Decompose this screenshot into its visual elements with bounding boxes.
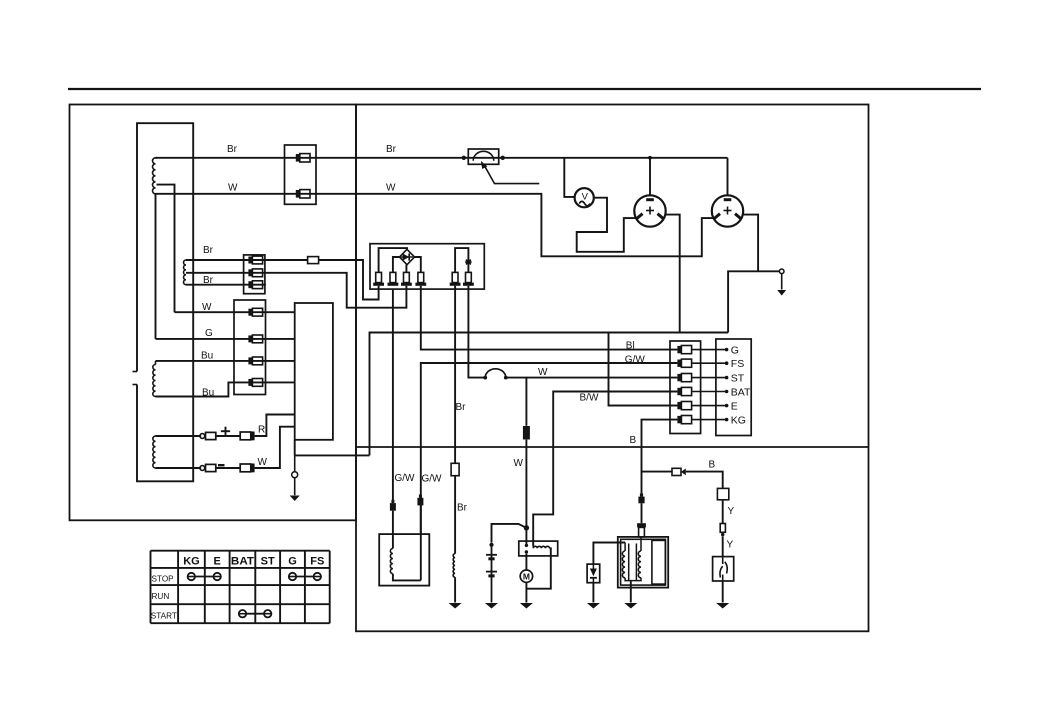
wire relay coil to ground side: [526, 548, 550, 588]
wire Bu2 to regulator: [156, 382, 295, 396]
AC receptacle 1 circle: [634, 195, 665, 226]
connector on Y wire: [720, 524, 725, 533]
wire to G label: [692, 349, 725, 351]
ground arrow: [624, 603, 637, 609]
wire earth link to E line: [295, 454, 370, 456]
minus mark: [218, 464, 225, 466]
wire to ST label: [692, 377, 725, 379]
wire voltmeter to receptacle 1: [577, 198, 636, 252]
svg-text:Br: Br: [457, 503, 468, 514]
AC receptacle 2 plus mark: [724, 210, 732, 212]
fuse box on Y circuit: [717, 488, 728, 499]
gauge plug: [637, 523, 646, 527]
connector J2 (3-pin) housing: [244, 255, 265, 294]
wire to FS label: [692, 362, 725, 364]
svg-text:BAT: BAT: [231, 555, 254, 567]
starter motor circle: [520, 570, 532, 582]
terminal dot G: [725, 348, 729, 352]
rectifier terminal 5 socket: [452, 272, 458, 282]
gauge left winding: [622, 551, 625, 578]
wire W to starter relay: [525, 440, 527, 544]
connector J3 pin W: [248, 309, 252, 316]
svg-text:Y: Y: [728, 506, 735, 517]
hop dot: [504, 376, 508, 380]
ground stem: [781, 274, 783, 290]
diode symbol in diamond: [403, 253, 410, 260]
rectifier terminal 3 foot: [401, 283, 412, 286]
main switch table grid: [150, 551, 152, 624]
wire receptacle 2 right pin to ground node: [743, 215, 758, 272]
diode symbol: [590, 569, 597, 577]
inline connector (black): [523, 426, 530, 440]
wire terminal 5 over to terminal 6: [455, 248, 468, 272]
battery plate long: [486, 571, 497, 573]
battery plate long: [486, 554, 497, 556]
connector on W row: [240, 464, 251, 472]
generator compartment box (left): [70, 105, 357, 521]
wire ground link: [728, 271, 779, 332]
rectifier terminal 1 socket: [376, 272, 382, 282]
AC receptacle 2 top slot: [724, 198, 732, 201]
svg-text:Br: Br: [227, 144, 238, 155]
starter relay box: [519, 541, 558, 556]
gauge core line: [628, 544, 630, 581]
wire G/W (ignition to FS terminal): [421, 363, 678, 534]
battery stem: [491, 547, 493, 603]
wire B to gauge plug: [641, 503, 643, 523]
rectifier terminal 4 socket: [418, 272, 424, 282]
wire W to regulator: [175, 311, 295, 313]
wire R row: [216, 435, 240, 437]
AC receptacle 1 lower-left slot: [637, 214, 643, 219]
wire W down from ST line: [525, 378, 527, 426]
svg-text:BAT: BAT: [731, 386, 751, 398]
svg-text:Br: Br: [203, 275, 214, 286]
connector J3 pin Bu1: [248, 357, 252, 364]
connector J4 (6-pin) housing: [670, 341, 701, 434]
diode unit box: [587, 564, 600, 583]
svg-text:E: E: [214, 555, 221, 567]
rectifier terminal 5 foot: [450, 283, 461, 286]
relay coil: [533, 546, 549, 548]
wire battery positive: [492, 524, 526, 543]
stator coil W1 (main: Br/W): [153, 158, 156, 194]
wire Br2 coil tap to rectifier T3: [186, 273, 406, 308]
svg-text:Bu: Bu: [202, 387, 214, 398]
battery plate short: [488, 574, 494, 577]
wire to KG label: [692, 419, 725, 421]
voltmeter ac tilde: [579, 201, 590, 205]
wire E (earth) run: [370, 333, 729, 456]
svg-text:FS: FS: [310, 555, 324, 567]
wire terminal 1 to diamond top: [379, 248, 407, 272]
svg-text:Bl: Bl: [626, 341, 635, 352]
bullet connector on G/W1: [391, 500, 394, 503]
wire Br (main output): [156, 157, 728, 159]
svg-text:Br: Br: [203, 245, 214, 256]
connector J1 (2-pin) housing: [285, 145, 317, 204]
svg-text:G: G: [205, 328, 213, 339]
svg-text:G: G: [731, 344, 739, 356]
wire Y: [722, 500, 724, 524]
connector J3 pin Bu2: [248, 379, 252, 386]
wire Br3 stub: [186, 284, 266, 286]
wire Br1 coil to rectifier T1: [186, 259, 308, 261]
wire terminal 4 to diamond right: [415, 257, 421, 272]
ignition coil primary winding: [390, 549, 393, 574]
rectifier terminal 3 socket: [404, 272, 410, 282]
wire gauge left exit: [593, 543, 625, 565]
wire E drop to connector: [609, 333, 678, 406]
bullet terminal on W row: [200, 466, 205, 471]
wire G/W 1 (T2 down): [392, 289, 394, 502]
svg-text:W: W: [514, 458, 524, 469]
wire G/W2 into coil: [420, 505, 422, 580]
connector J4 pin FS: [677, 360, 681, 367]
connector J1 pin W: [296, 190, 300, 198]
stator coil W4 (charging: R/W): [153, 436, 156, 468]
wire W row: [216, 467, 240, 469]
voltmeter circle: [575, 188, 594, 207]
wire W to ST terminal: [506, 377, 678, 379]
wire terminal 3 to diamond bottom: [405, 265, 407, 273]
connector J2 pin Br1: [248, 257, 252, 264]
connector J2 pin Br2: [248, 269, 252, 276]
ground terminal circle: [779, 269, 784, 274]
AC receptacle 2 circle: [712, 195, 743, 226]
ground arrow: [716, 603, 729, 609]
ground terminal stem: [294, 455, 296, 471]
svg-text:RUN: RUN: [152, 592, 170, 601]
wire main coil bottom down to G lead: [155, 194, 157, 339]
ground arrow: [587, 603, 600, 609]
wire terminal 2 to diamond left: [393, 257, 400, 272]
switch closure G-FS stop: [289, 576, 321, 578]
svg-text:G: G: [288, 555, 297, 567]
svg-text:M: M: [523, 572, 530, 582]
connector J4 pin E: [677, 402, 681, 409]
rectifier unit box: [370, 244, 484, 289]
battery plate short: [488, 557, 494, 560]
wire Y to switch: [722, 536, 724, 556]
wire relay to motor: [525, 554, 527, 571]
svg-text:KG: KG: [183, 555, 200, 567]
ground terminal circle: [292, 472, 298, 478]
AC receptacle 1 plus mark: [646, 210, 654, 212]
hour meter scale arc: [473, 151, 494, 161]
wire E terminal stub: [609, 405, 678, 407]
svg-text:E: E: [731, 400, 738, 412]
svg-text:Bu: Bu: [201, 351, 213, 362]
bullet connector on G/W2: [419, 495, 422, 498]
wire switch to ground: [722, 581, 724, 603]
svg-text:B: B: [709, 460, 716, 471]
wire regulator earth stub: [294, 440, 296, 456]
ground arrow: [777, 290, 786, 296]
svg-text:ST: ST: [261, 555, 275, 567]
gauge right winding: [638, 551, 641, 578]
svg-text:W: W: [538, 367, 548, 378]
gauge winding bottom link: [625, 578, 641, 581]
connector J3 (4-pin) housing: [234, 300, 266, 395]
wire B branch: [642, 471, 673, 473]
rectifier terminal 2 socket: [390, 272, 396, 282]
hour meter box: [468, 149, 498, 164]
svg-text:ST: ST: [731, 372, 745, 384]
wire G/W1 into coil: [392, 511, 394, 549]
pointer arrowhead: [481, 161, 487, 169]
svg-text:W: W: [202, 302, 212, 313]
wire Br tap to voltmeter: [564, 158, 575, 197]
diode bridge diamond: [400, 249, 415, 264]
plus mark: [221, 430, 230, 432]
rectifier terminal 6 foot: [463, 283, 474, 286]
switch blade: [722, 557, 724, 564]
wire Br1 continue: [319, 260, 379, 300]
svg-text:B: B: [630, 435, 637, 446]
svg-text:Br: Br: [456, 402, 467, 413]
rectifier terminal 2 foot: [388, 283, 399, 286]
wire Br corner into receptacle 2 top pin: [727, 158, 729, 195]
terminal dot E: [725, 404, 729, 408]
rectifier terminal 4 foot: [415, 283, 426, 286]
wire diode to ground: [592, 583, 594, 603]
generator box break ticks: [133, 371, 138, 373]
wire B/W (BAT terminal to relay): [533, 392, 677, 547]
wire W (main return): [156, 194, 714, 256]
wire R to regulator: [255, 415, 295, 437]
connector J4 pin ST: [677, 374, 681, 381]
ignition coil box: [379, 534, 429, 586]
ground arrow: [449, 603, 462, 609]
AC receptacle 1 top slot: [646, 198, 654, 201]
svg-text:W: W: [228, 182, 238, 193]
wire KG terminal to B wire: [642, 420, 678, 494]
wire hop: [485, 369, 506, 378]
control panel box (right): [356, 105, 869, 632]
main switch terminal box: [716, 339, 751, 436]
connector on B branch: [672, 468, 681, 475]
terminal dot BAT: [725, 390, 729, 394]
fuse on Br1 wire: [308, 257, 319, 264]
gauge core line: [635, 544, 637, 581]
battery terminal dot: [489, 543, 493, 547]
gauge left winding lead: [624, 543, 626, 552]
oil level switch box: [713, 557, 734, 581]
svg-text:R: R: [258, 424, 265, 435]
wire Br continue: [454, 476, 456, 554]
junction dot: [648, 156, 652, 160]
svg-text:G/W: G/W: [422, 474, 443, 485]
ground arrow: [520, 603, 533, 609]
connector J2 pin Br3: [248, 281, 252, 288]
ground arrow: [485, 603, 498, 609]
junction dot battery node: [524, 525, 529, 530]
bullet connector on B wire: [640, 493, 643, 496]
generator unit box (with break in left edge): [137, 123, 193, 481]
page top rule: [68, 88, 981, 90]
svg-text:KG: KG: [731, 414, 746, 426]
oil level gauge outer box: [618, 537, 668, 588]
wire W row from coil: [156, 467, 202, 469]
AC receptacle 2 lower-right slot: [735, 214, 741, 219]
wire to E label: [692, 405, 725, 407]
switch closure KG-E stop: [188, 576, 222, 578]
oil level gauge inner box: [621, 539, 666, 585]
rectifier terminal 1 foot: [373, 283, 384, 286]
wire main coil top to Br lead: [156, 157, 158, 159]
connector on R row: [240, 432, 251, 440]
AC receptacle 1 lower-right slot: [658, 214, 664, 219]
stator coil W2 (sub: Br/Br/Br): [184, 260, 186, 285]
svg-text:G/W: G/W: [395, 473, 416, 484]
ignition source coil: [453, 554, 455, 578]
thermistor star mark: [466, 260, 471, 265]
svg-text:Br: Br: [386, 144, 397, 155]
fuse on Br wire: [451, 463, 459, 475]
terminal dot FS: [725, 361, 729, 365]
wire gauge to ground: [630, 581, 632, 603]
connector J4 pin BAT: [677, 388, 681, 395]
connector J1 pin Br: [296, 154, 300, 162]
wire Bu1 to regulator: [156, 360, 295, 362]
svg-text:W: W: [386, 183, 396, 194]
bullet terminal on R row: [200, 434, 205, 439]
voltage regulator box: [295, 303, 333, 440]
terminal dot ST: [725, 376, 729, 380]
junction dot: [462, 156, 466, 160]
wire W to regulator: [255, 427, 295, 468]
connector J4 pin G: [677, 346, 681, 353]
wire Br (T5 down): [454, 286, 456, 464]
wire to ground: [454, 577, 456, 602]
pointer arrow to meter: [484, 165, 540, 184]
svg-text:Y: Y: [727, 540, 734, 551]
connector J4 pin KG: [677, 416, 681, 423]
wire receptacle 1 right pin down to E line: [666, 215, 680, 333]
svg-text:STOP: STOP: [152, 574, 175, 583]
gauge float column: [652, 540, 666, 584]
ignition coil internal wire: [393, 574, 421, 581]
switch closure BAT-ST start: [239, 613, 272, 615]
gauge right winding lead: [640, 537, 642, 551]
wire G to regulator: [156, 338, 295, 340]
wire Bl (T4 to G terminal): [421, 286, 678, 350]
wire B branch to fuse: [686, 472, 723, 489]
wire receptacle 1 top pin: [649, 158, 651, 195]
svg-text:W: W: [258, 457, 268, 468]
terminal dot KG: [725, 418, 729, 422]
ground stem: [294, 478, 296, 496]
wire motor to ground: [525, 582, 527, 602]
hop dot: [483, 376, 487, 380]
rectifier terminal 6 socket: [466, 272, 472, 282]
svg-text:FS: FS: [731, 358, 744, 370]
connector J3 pin G: [248, 335, 252, 342]
svg-text:START: START: [151, 611, 177, 620]
wire main coil tap: [157, 185, 175, 313]
relay contact: [525, 544, 528, 547]
ground arrow: [290, 496, 300, 502]
svg-text:G/W: G/W: [625, 354, 646, 365]
stator coil W3 (lighting: Bu/Bu): [153, 365, 156, 397]
wire R row from coil: [156, 435, 202, 437]
junction dot: [501, 156, 505, 160]
ground bus wire: [356, 446, 869, 448]
svg-text:B/W: B/W: [580, 393, 599, 404]
AC receptacle 2 lower-left slot: [714, 214, 720, 219]
relay contact: [525, 550, 528, 553]
wire W (T6 to ST terminal): [468, 286, 485, 378]
wire to BAT label: [692, 391, 725, 393]
